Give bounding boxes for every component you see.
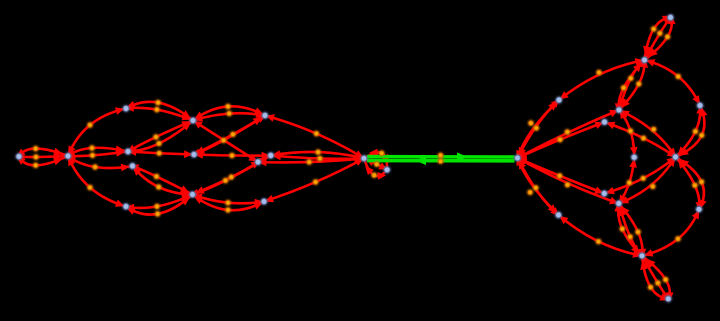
edge C2-B2 bbox=[133, 166, 193, 198]
node BT bbox=[664, 295, 672, 303]
edge E2-D bbox=[194, 151, 271, 160]
edge T2-C1 bbox=[127, 121, 193, 153]
edge RB-BT bbox=[642, 256, 674, 301]
edge midpoint dot RT-RR1 bbox=[675, 73, 681, 79]
edge midpoint dot RB-BT bbox=[663, 277, 669, 283]
edge RT-RR1 bbox=[645, 59, 701, 105]
node TT bbox=[667, 14, 675, 22]
node RC2 bbox=[672, 153, 680, 161]
edge midpoint dot D-C1 bbox=[156, 150, 162, 156]
edge RM1-RC2 bbox=[619, 110, 676, 157]
edge midpoint dot H-RL1 bbox=[533, 125, 539, 131]
edge B2-B1 bbox=[125, 195, 192, 212]
edge W-E2 bbox=[271, 152, 365, 162]
edge D-C1 bbox=[128, 148, 194, 158]
edge B3-B2 bbox=[193, 195, 265, 211]
edge B-B1 bbox=[68, 156, 126, 207]
node B1 bbox=[122, 203, 130, 211]
edge midpoint dot H-RN2 bbox=[557, 173, 563, 179]
edge midpoint dot D-T3 bbox=[230, 131, 236, 137]
edge midpoint dot RT-RM1 bbox=[636, 81, 642, 87]
edge midpoint dot H-RL2 bbox=[533, 185, 539, 191]
edge A-B bbox=[15, 153, 68, 161]
edge midpoint dot green W-H bbox=[438, 152, 444, 158]
node B bbox=[64, 152, 72, 160]
edge B-C2 bbox=[67, 156, 133, 171]
edge H-RM2 bbox=[518, 158, 619, 204]
edge midpoint dot RL2-RB bbox=[595, 238, 601, 244]
edge midpoint dot A-B bbox=[33, 154, 39, 160]
edge H-RN1 bbox=[518, 122, 605, 158]
edge RC2-RR2 bbox=[676, 157, 707, 209]
edge RN2-RC2 bbox=[604, 157, 675, 194]
edge midpoint dot RB-BT bbox=[648, 284, 654, 290]
edge RB-BT bbox=[640, 256, 669, 301]
edge midpoint dot B2-E2 bbox=[222, 177, 228, 183]
edge RT-RL1 bbox=[559, 58, 645, 100]
node RC1 bbox=[630, 153, 638, 161]
green edge H-W backward bbox=[367, 156, 515, 165]
edge midpoint dot W2-W bbox=[374, 161, 380, 167]
edge BT-RB bbox=[642, 256, 670, 302]
edge midpoint dot RN2-RC2 bbox=[640, 175, 646, 181]
edge midpoint dot T3-T2 bbox=[226, 110, 232, 116]
node RR1 bbox=[696, 102, 704, 110]
node T1 bbox=[122, 105, 130, 113]
edge midpoint dot H-RM2 bbox=[564, 182, 570, 188]
node D bbox=[190, 151, 198, 159]
edge C1-B bbox=[66, 149, 128, 160]
edge midpoint dot TT-RT bbox=[657, 30, 663, 36]
green edge W-H forward bbox=[367, 152, 515, 161]
edge T3-W bbox=[265, 114, 364, 158]
edge midpoint dot H-RM1 bbox=[564, 129, 570, 135]
edge midpoint dot BT-RB bbox=[655, 280, 661, 286]
edge RM1-RC1 bbox=[619, 110, 638, 158]
node W bbox=[360, 155, 368, 163]
node A bbox=[15, 153, 23, 161]
node RM1 bbox=[615, 106, 623, 114]
edge midpoint dot H-RL2 bbox=[527, 189, 533, 195]
edge B-A bbox=[17, 156, 69, 165]
edge midpoint dot B-T1 bbox=[87, 122, 93, 128]
node E1 bbox=[254, 158, 262, 166]
edge midpoint dot T2-T1 bbox=[155, 100, 161, 106]
edge H-RL1 bbox=[518, 99, 560, 158]
edge midpoint dot H-RN1 bbox=[557, 137, 563, 143]
edge midpoint dot RB-RR2 bbox=[675, 236, 681, 242]
edge midpoint dot RM2-RC1 bbox=[626, 180, 632, 186]
edge E1-W bbox=[258, 155, 364, 166]
edge B-A bbox=[16, 148, 68, 157]
edge RB-RR2 bbox=[642, 209, 699, 256]
edge T2-E1 bbox=[193, 121, 258, 163]
edge RT-TT bbox=[643, 16, 671, 60]
edge midpoint dot RR1-RC2 bbox=[692, 128, 698, 134]
edge midpoint dot RM1-RC2 bbox=[651, 126, 657, 132]
node RR2 bbox=[695, 205, 703, 213]
edge T1-T2 bbox=[125, 104, 193, 121]
edge RT-RM1 bbox=[615, 60, 645, 112]
edge midpoint dot B3-B2 bbox=[225, 207, 231, 213]
edge C1-T2 bbox=[127, 121, 193, 155]
edge midpoint dot W-W2 bbox=[371, 172, 377, 178]
edge T2-T3 bbox=[193, 106, 265, 120]
edge RC2-RR1 bbox=[676, 106, 708, 158]
node RM2 bbox=[615, 200, 623, 208]
node T2 bbox=[189, 117, 197, 125]
edge T2-T1 bbox=[126, 101, 193, 121]
node RL1 bbox=[555, 96, 563, 104]
edge B2-E2 bbox=[190, 156, 271, 197]
edge midpoint dot B-A bbox=[33, 162, 39, 168]
edge midpoint dot RT-TT bbox=[651, 26, 657, 32]
edge B2-B3 bbox=[193, 194, 265, 207]
edge midpoint dot T3-W bbox=[313, 131, 319, 137]
edge RN1-RC2 bbox=[605, 122, 677, 157]
edge B2-C2 bbox=[130, 165, 193, 195]
edge H-RM1 bbox=[518, 110, 620, 158]
edge W-W2 bbox=[364, 149, 389, 170]
edge midpoint dot RB-RM2 bbox=[627, 234, 633, 240]
edge RL2-H bbox=[517, 157, 559, 215]
edge midpoint dot RC2-RR2 bbox=[698, 179, 704, 185]
edge RR2-RC2 bbox=[676, 157, 704, 211]
edge T3-D bbox=[192, 116, 265, 156]
edge midpoint dot C1-B bbox=[89, 152, 95, 158]
node B3 bbox=[260, 198, 268, 206]
edge midpoint dot T3-D bbox=[221, 137, 227, 143]
edge midpoint dot RM2-RB bbox=[635, 229, 641, 235]
edge TT-RT bbox=[645, 15, 673, 60]
node H bbox=[514, 154, 522, 162]
edge midpoint dot E1-W bbox=[306, 159, 312, 165]
edge D-T3 bbox=[194, 115, 266, 154]
edge H-RL2 bbox=[518, 158, 560, 216]
edge RT-TT bbox=[645, 15, 676, 60]
edge E2-W bbox=[271, 150, 364, 160]
edge midpoint dot T2-C1 bbox=[153, 134, 159, 140]
edge midpoint dot B-A bbox=[33, 146, 39, 152]
edge midpoint dot RT-TT bbox=[664, 34, 670, 40]
edge midpoint dot B2-C2 bbox=[153, 173, 159, 179]
edge RM2-RB bbox=[619, 204, 647, 258]
edge midpoint dot H-RL1 bbox=[528, 120, 534, 126]
node C1 bbox=[124, 148, 132, 156]
edge midpoint dot B2-B1 bbox=[154, 203, 160, 209]
edge H-RN2 bbox=[518, 158, 605, 194]
edge midpoint dot green W-H bbox=[438, 158, 444, 164]
edge midpoint dot RT-RM1 bbox=[621, 85, 627, 91]
edge midpoint dot B-B1 bbox=[87, 184, 93, 190]
edge midpoint dot B-C1 bbox=[89, 145, 95, 151]
node RT bbox=[641, 56, 649, 64]
edge midpoint dot W-W2 bbox=[379, 150, 385, 156]
edge midpoint dot RM2-RC2 bbox=[650, 183, 656, 189]
node RL2 bbox=[555, 211, 563, 219]
edge midpoint dot C1-T2 bbox=[156, 140, 162, 146]
edge B1-B2 bbox=[126, 195, 193, 215]
edge W-W2 bbox=[364, 158, 387, 179]
edge RM2-RC1 bbox=[619, 157, 637, 204]
edge RR1-RC2 bbox=[676, 105, 705, 157]
edge B3-W bbox=[264, 158, 364, 202]
edge midpoint dot C2-B2 bbox=[156, 184, 162, 190]
node E2 bbox=[267, 152, 275, 160]
edge RT-RM1 bbox=[619, 59, 648, 110]
edge B-C1 bbox=[66, 145, 128, 156]
edge midpoint dot RM2-RB bbox=[619, 226, 625, 232]
edge midpoint dot E2-D bbox=[229, 152, 235, 158]
edge B2-E1 bbox=[193, 161, 260, 195]
node RN2 bbox=[600, 190, 608, 198]
node W2 bbox=[383, 166, 391, 174]
node B2 bbox=[189, 191, 197, 199]
edge RM2-RC2 bbox=[619, 157, 676, 204]
edge midpoint dot RM1-RC1 bbox=[627, 128, 633, 134]
edge midpoint dot B1-B2 bbox=[155, 211, 161, 217]
edge midpoint dot E2-W bbox=[315, 149, 321, 155]
edge T3-T2 bbox=[193, 110, 265, 121]
edge midpoint dot B2-E1 bbox=[228, 174, 234, 180]
edge midpoint dot T2-T3 bbox=[225, 103, 231, 109]
node RB bbox=[638, 252, 646, 260]
edge midpoint dot RT-RL1 bbox=[596, 69, 602, 75]
node RN1 bbox=[601, 118, 609, 126]
edge midpoint dot RN1-RC2 bbox=[640, 135, 646, 141]
edge W2-W bbox=[364, 158, 388, 170]
edge midpoint dot W-E2 bbox=[317, 155, 323, 161]
edge midpoint dot B3-W bbox=[313, 179, 319, 185]
edge midpoint dot RC2-RR1 bbox=[699, 132, 705, 138]
edge midpoint dot B2-B3 bbox=[225, 200, 231, 206]
edge RL2-RB bbox=[559, 215, 643, 258]
edge RL1-H bbox=[516, 100, 559, 159]
edge RB-RM2 bbox=[619, 204, 644, 259]
edge B-T1 bbox=[68, 107, 126, 156]
node C2 bbox=[129, 162, 137, 170]
edge midpoint dot RM1-RT bbox=[628, 75, 634, 81]
edge midpoint dot B-C2 bbox=[92, 164, 98, 170]
edge midpoint dot T1-T2 bbox=[154, 107, 160, 113]
edge RM1-RT bbox=[619, 58, 646, 110]
edge RM2-RB bbox=[614, 203, 642, 256]
edge midpoint dot RR2-RC2 bbox=[692, 182, 698, 188]
node T3 bbox=[261, 112, 269, 120]
